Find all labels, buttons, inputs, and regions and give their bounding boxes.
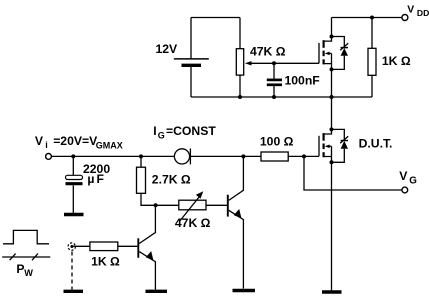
svg-text:=CONST: =CONST: [166, 124, 216, 138]
label 47K Ohm (top): [250, 45, 286, 59]
terminal Vi: [46, 154, 52, 160]
resistor R 1K (top right): [368, 18, 376, 98]
wire battery-pot loop top: [191, 17, 240, 19]
capacitor C 100nF: [267, 63, 282, 97]
ground (2200uF): [64, 213, 84, 216]
wire main vertical (clamp source to rail): [331, 69, 333, 129]
ground (Q1 emitter): [146, 290, 168, 293]
svg-text:G: G: [158, 130, 165, 140]
svg-text:V: V: [407, 4, 414, 15]
node Q2 collector junction: [241, 154, 245, 158]
label 100nF: [285, 73, 320, 87]
label 100 Ohm: [260, 134, 294, 148]
node 2.7K junction: [139, 154, 143, 158]
terminal VG: [402, 187, 408, 193]
battery 12V: [174, 18, 209, 98]
svg-text:G: G: [409, 176, 417, 187]
mosfet Q-top (clamp) with body diode: [319, 18, 348, 72]
variable resistor 47K (horizontal): [179, 191, 227, 220]
transistor Q1: [138, 205, 155, 290]
transistor Q2: [228, 156, 244, 288]
mosfet DUT with body diode: [319, 127, 348, 164]
svg-text:V: V: [35, 134, 44, 148]
svg-text:1K Ω: 1K Ω: [382, 54, 411, 68]
svg-text:µ: µ: [87, 172, 94, 186]
svg-text:i: i: [45, 140, 48, 150]
node rail junctions: [238, 95, 334, 99]
svg-text:100 Ω: 100 Ω: [260, 134, 294, 148]
label 2200 uF: [83, 162, 110, 186]
svg-text:47K Ω: 47K Ω: [175, 216, 211, 230]
svg-text:=20V=V: =20V=V: [53, 134, 98, 148]
potentiometer wiper arrow and wire to gate: [245, 61, 319, 65]
label IG=CONST: [153, 124, 216, 140]
pulse waveform symbol: [2, 230, 50, 260]
svg-text:I: I: [153, 124, 156, 138]
label 47K Ohm (bottom): [175, 216, 211, 230]
label D.U.T.: [359, 137, 393, 151]
wire DUT source down to ground: [331, 162, 333, 291]
current source IG: [174, 148, 261, 164]
wire pulse dashed vertical: [71, 252, 73, 290]
svg-text:V: V: [399, 169, 408, 183]
node DUT gate junction: [302, 154, 306, 158]
label 1K Ohm (bottom): [91, 255, 120, 269]
node top-rail junction: [370, 16, 374, 20]
potentiometer 47K (vertical): [236, 18, 243, 98]
svg-text:W: W: [24, 268, 33, 278]
label 12V: [156, 42, 179, 56]
resistor R 100 (horizontal): [261, 152, 319, 161]
svg-text:1K Ω: 1K Ω: [91, 255, 120, 269]
label 1K Ohm (top): [382, 54, 411, 68]
label Vi = 20V = VGMAX: [35, 134, 123, 150]
svg-text:F: F: [97, 172, 104, 186]
wire Vi horizontal line: [51, 155, 174, 157]
svg-text:12V: 12V: [156, 42, 179, 56]
ground (main): [322, 290, 342, 293]
label 2.7K Ohm: [152, 172, 191, 186]
node Q1 collector junction: [154, 203, 158, 207]
terminal VDD: [402, 15, 408, 21]
resistor R 1K (base, horizontal): [72, 242, 137, 251]
ground (pulse): [64, 290, 84, 293]
svg-text:D.U.T.: D.U.T.: [359, 137, 393, 151]
label V_DD: [407, 4, 429, 18]
label P_W: [16, 262, 33, 278]
ground (Q2 emitter): [233, 289, 256, 292]
svg-text:GMAX: GMAX: [96, 140, 123, 150]
svg-text:2.7K Ω: 2.7K Ω: [152, 172, 191, 186]
terminal pulse input (dashed circle): [68, 243, 75, 250]
label V_G: [399, 169, 417, 186]
resistor R 2.7K: [137, 156, 179, 205]
svg-text:100nF: 100nF: [285, 73, 320, 87]
node wiper/100nF junction: [272, 61, 276, 65]
capacitor C 2200uF: [66, 156, 83, 213]
node Vi/2200uF junction: [71, 154, 75, 158]
wire top VDD rail: [332, 17, 403, 19]
svg-text:DD: DD: [417, 8, 429, 18]
wire VG from gate node: [304, 156, 402, 190]
wire bottom rail of gate-supply loop: [191, 96, 372, 98]
svg-text:47K Ω: 47K Ω: [250, 45, 286, 59]
